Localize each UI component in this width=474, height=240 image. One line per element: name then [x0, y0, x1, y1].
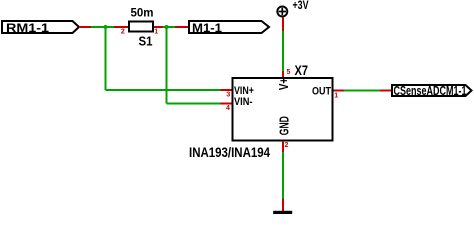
ground — [273, 211, 292, 215]
wire horizontal to VIN- (green) — [167, 103, 221, 105]
wire net CSenseADCM1 horizontal (green) — [344, 90, 380, 92]
net flag CSenseADCM1-1 — [392, 84, 472, 98]
wire resistor pin2 stub (red) — [114, 26, 128, 28]
wire +3V net vertical (green) — [282, 31, 284, 71]
wire vertical from junction down to VIN+ row (green) — [105, 27, 107, 90]
wire net RM1 horizontal (green) — [91, 26, 114, 28]
wire net M1 horizontal (green) — [163, 26, 175, 28]
op-amp U1 INA193 body — [233, 78, 333, 141]
svg-text:GND: GND — [278, 116, 292, 135]
svg-text:M1-1: M1-1 — [192, 21, 222, 35]
pin 5 stub V+ (red) — [282, 71, 284, 78]
net flag M1-1 — [189, 21, 269, 35]
resistor S1 body — [129, 22, 153, 32]
junction at node RM1 left — [104, 25, 108, 29]
net flag RM1-1 — [2, 21, 79, 35]
svg-text:2: 2 — [121, 29, 125, 36]
wire RM1-1 pin stub (red) — [79, 26, 91, 28]
svg-text:CSenseADCM1-1: CSenseADCM1-1 — [394, 84, 467, 98]
svg-text:5: 5 — [287, 69, 291, 76]
wire resistor pin1 stub (red) — [154, 26, 163, 28]
wire ground symbol pin stub (red) — [282, 199, 284, 212]
svg-text:OUT: OUT — [312, 86, 331, 98]
svg-text:2: 2 — [285, 142, 289, 149]
svg-text:+3V: +3V — [293, 0, 309, 12]
svg-text:4: 4 — [226, 105, 230, 112]
svg-text:1: 1 — [334, 92, 338, 99]
svg-text:VIN-: VIN- — [234, 96, 253, 108]
wire vertical from junction down to VIN- row (green) — [166, 27, 168, 104]
power symbol +3V — [277, 0, 308, 17]
svg-text:INA193/INA194: INA193/INA194 — [189, 144, 270, 160]
wire horizontal to VIN+ (green) — [106, 89, 221, 91]
svg-text:S1: S1 — [139, 35, 153, 49]
pin 1 stub OUT (red) — [334, 90, 345, 92]
wire M1-1 flag pin stub (red) — [175, 26, 189, 28]
svg-text:V+: V+ — [277, 78, 291, 91]
svg-text:50m: 50m — [131, 7, 154, 19]
wire GND net vertical (green) — [282, 152, 284, 199]
pin 4 stub VIN- (red) — [221, 103, 233, 105]
junction at node M1 — [165, 25, 169, 29]
wire +3V pin stub (red) — [282, 17, 284, 31]
wire CSense flag pin stub (red) — [380, 90, 392, 92]
svg-text:3: 3 — [226, 92, 230, 99]
svg-text:X7: X7 — [295, 62, 309, 78]
pin 2 stub GND (red) — [282, 141, 284, 152]
svg-text:RM1-1: RM1-1 — [6, 23, 50, 35]
svg-text:1: 1 — [154, 29, 158, 36]
pin 3 stub VIN+ (red) — [221, 89, 233, 91]
